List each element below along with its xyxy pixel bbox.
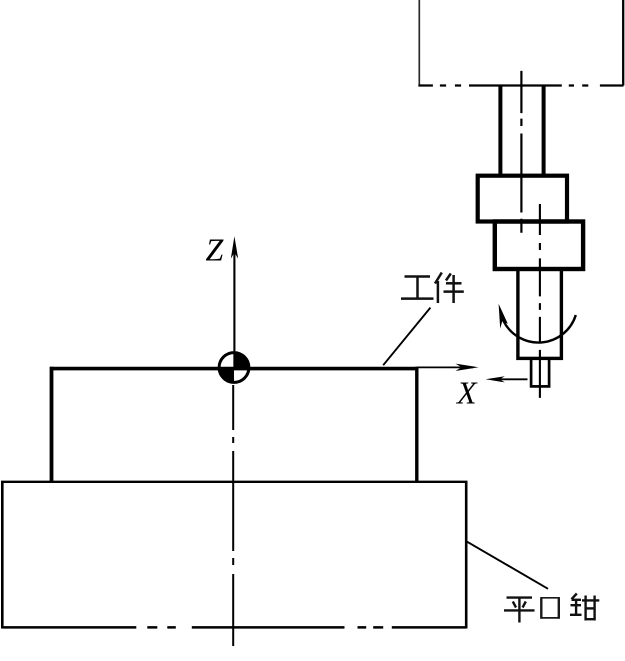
workpiece/vise vertical centerline (232, 385, 234, 646)
spindle shaft right edge (542, 86, 546, 176)
feed direction arrowhead (486, 376, 505, 382)
label 工件 (workpiece) char 件 (435, 273, 464, 304)
Z axis arrowhead (231, 236, 238, 258)
spindle rotation arc (504, 315, 576, 343)
tool stub (531, 358, 549, 386)
label 平口钳 (vise) char 钳 (570, 594, 599, 621)
rotation arrowhead (499, 304, 508, 329)
Z axis line (233, 249, 235, 368)
vise top edge (1, 481, 468, 483)
vise bottom edge (broken dash-dot) (2, 626, 466, 629)
vise right edge (465, 481, 468, 629)
workpiece left edge (50, 367, 54, 482)
svg-text:Z: Z (206, 232, 225, 268)
label 平口钳 (vise) char 口 (541, 597, 560, 618)
spindle head housing right edge (622, 0, 624, 86)
label 工件 (workpiece) char 工 (401, 277, 434, 299)
tool axis centerline (539, 204, 541, 398)
X axis line (417, 366, 473, 368)
spindle head housing left edge (418, 0, 420, 86)
label 平口钳 (vise) char 平 (504, 598, 535, 623)
chuck upper block (478, 176, 567, 222)
workpiece origin symbol (datum target) (219, 353, 249, 383)
collet cylinder (518, 269, 562, 358)
vise label leader line (467, 541, 548, 588)
svg-text:X: X (455, 375, 478, 411)
vise left edge (1, 481, 4, 629)
workpiece right edge (415, 367, 418, 482)
chuck lower block (495, 222, 583, 270)
spindle head housing bottom edge (broken dash-dot) (418, 84, 623, 86)
X axis arrowhead (456, 364, 479, 371)
spindle axis centerline (520, 71, 522, 233)
feed direction arrow line (500, 378, 528, 380)
workpiece label leader line (383, 308, 430, 366)
spindle shaft left edge (498, 86, 502, 176)
workpiece top edge (50, 367, 417, 371)
